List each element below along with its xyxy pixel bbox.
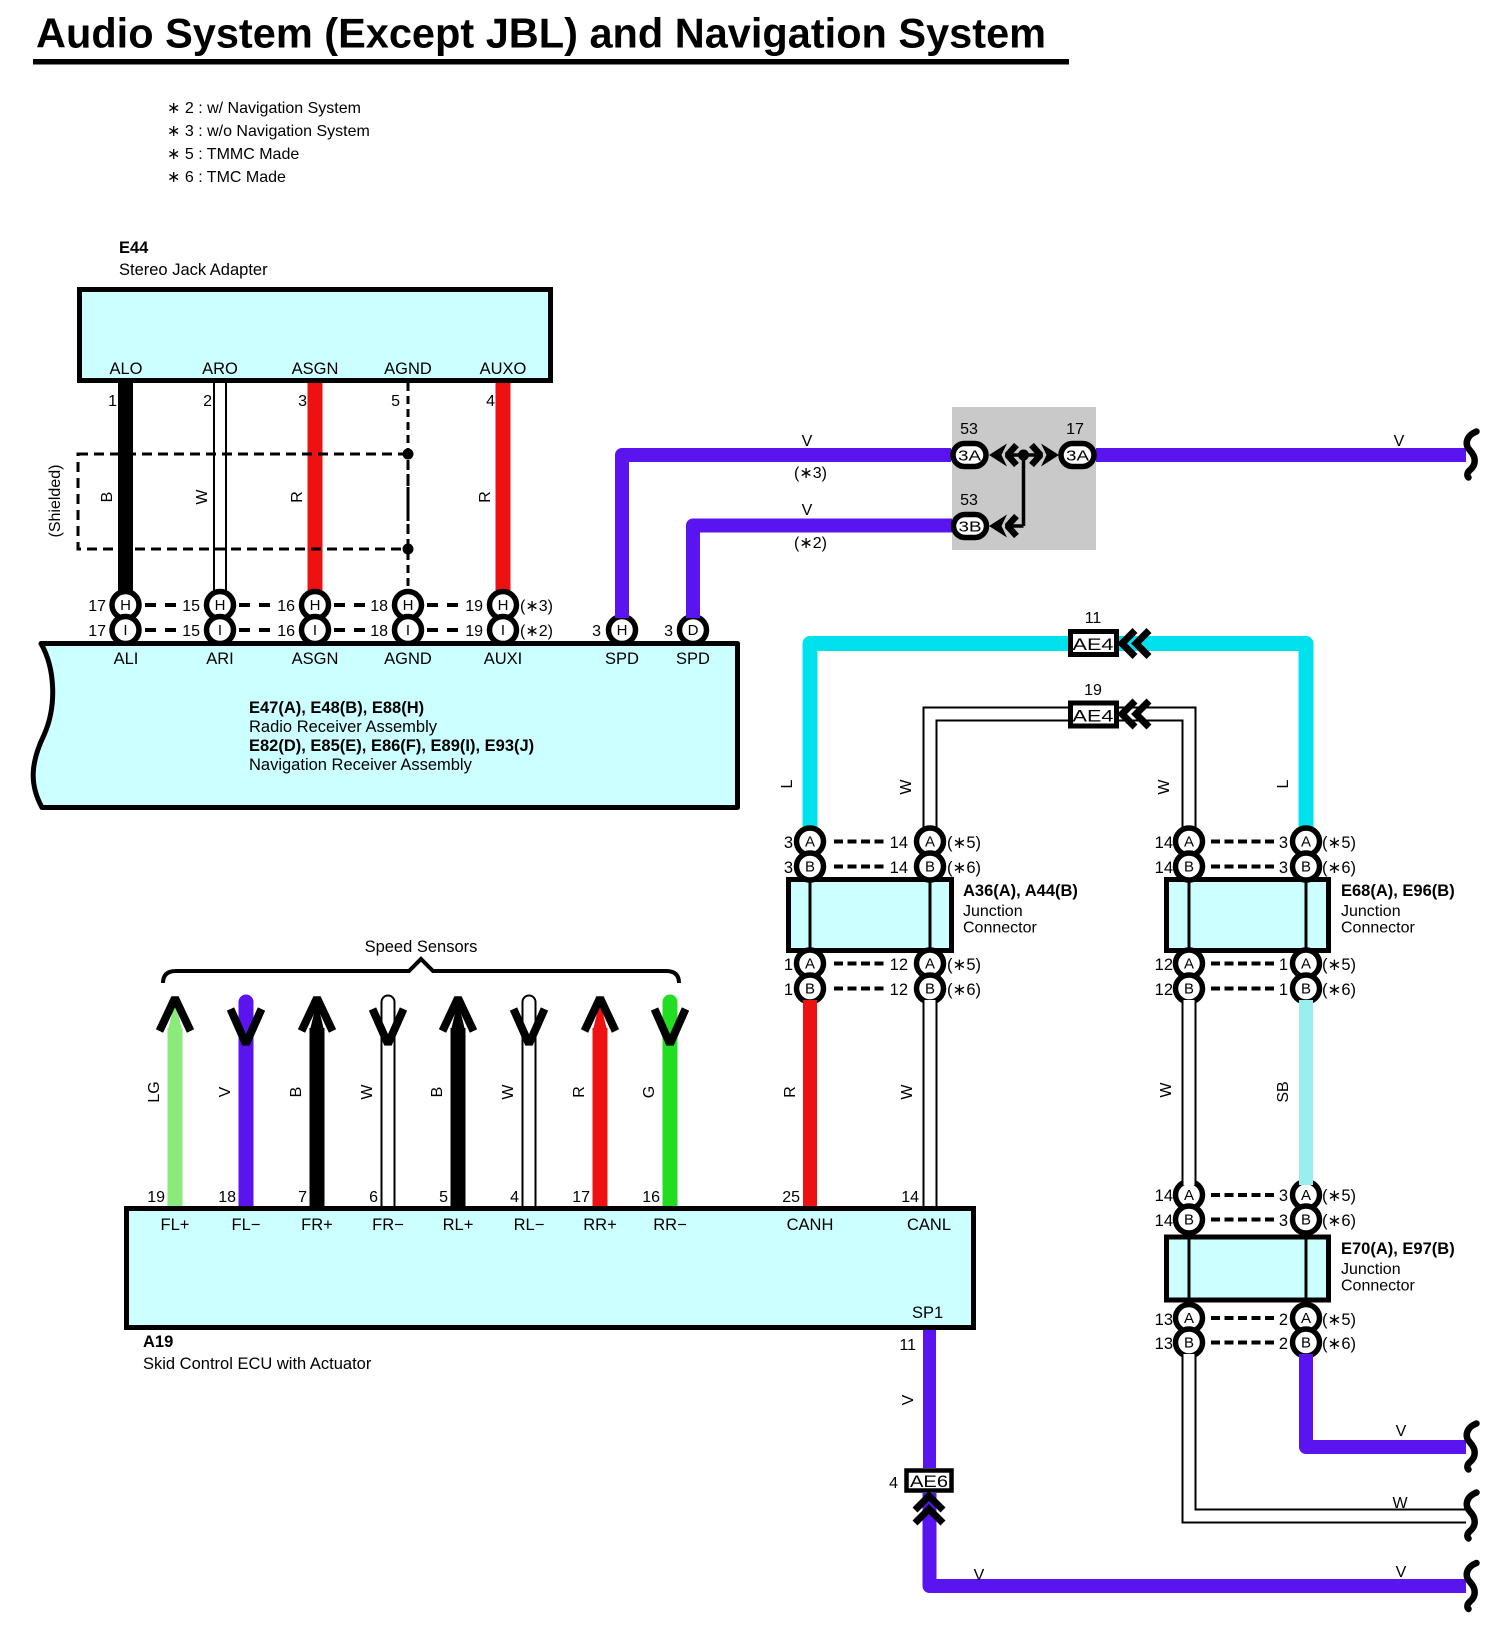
svg-text:A: A: [1184, 956, 1194, 973]
svg-text:17: 17: [572, 1189, 590, 1206]
svg-text:B: B: [925, 981, 935, 998]
svg-text:H: H: [310, 597, 321, 614]
svg-text:H: H: [617, 622, 628, 639]
svg-text:E70(A), E97(B): E70(A), E97(B): [1341, 1240, 1455, 1258]
svg-text:Radio Receiver Assembly: Radio Receiver Assembly: [249, 718, 438, 736]
svg-text:3: 3: [784, 859, 793, 877]
svg-text:B: B: [288, 1087, 305, 1098]
svg-text:18: 18: [370, 598, 388, 615]
svg-text:(∗2): (∗2): [520, 623, 553, 640]
svg-text:3: 3: [1279, 1187, 1288, 1205]
svg-text:ASGN: ASGN: [292, 360, 339, 378]
svg-text:B: B: [99, 492, 116, 503]
svg-text:4: 4: [889, 1475, 898, 1492]
svg-text:Speed Sensors: Speed Sensors: [365, 938, 478, 956]
svg-text:5: 5: [439, 1189, 448, 1206]
svg-text:25: 25: [782, 1189, 800, 1206]
svg-text:3: 3: [592, 623, 601, 640]
svg-text:13: 13: [1155, 1335, 1173, 1353]
svg-text:AGND: AGND: [384, 360, 432, 378]
svg-text:1: 1: [784, 981, 793, 999]
svg-text:12: 12: [1155, 956, 1173, 974]
svg-text:14: 14: [1155, 859, 1173, 877]
svg-text:1: 1: [1279, 956, 1288, 974]
svg-text:∗ 5 : TMMC Made: ∗ 5 : TMMC Made: [167, 146, 299, 163]
svg-text:Navigation Receiver Assembly: Navigation Receiver Assembly: [249, 756, 473, 774]
svg-text:14: 14: [1155, 1187, 1173, 1205]
svg-text:AE6: AE6: [910, 1473, 948, 1491]
svg-text:(∗6): (∗6): [947, 981, 981, 999]
svg-text:3: 3: [784, 834, 793, 852]
svg-text:D: D: [688, 622, 699, 639]
svg-text:2: 2: [1279, 1335, 1288, 1353]
svg-text:3B: 3B: [959, 519, 982, 536]
svg-text:19: 19: [1084, 682, 1102, 699]
svg-text:18: 18: [370, 623, 388, 640]
svg-text:H: H: [403, 597, 414, 614]
svg-text:AE4: AE4: [1073, 708, 1114, 726]
svg-text:13: 13: [1155, 1311, 1173, 1329]
svg-text:E68(A), E96(B): E68(A), E96(B): [1341, 882, 1455, 900]
svg-text:V: V: [1396, 1423, 1407, 1440]
svg-text:14: 14: [1155, 1212, 1173, 1230]
svg-text:W: W: [359, 1084, 376, 1100]
svg-text:B: B: [1184, 981, 1194, 998]
svg-text:12: 12: [890, 981, 908, 999]
svg-text:14: 14: [1155, 834, 1173, 852]
svg-text:7: 7: [298, 1189, 307, 1206]
svg-text:B: B: [1184, 1212, 1194, 1229]
svg-text:G: G: [641, 1086, 658, 1098]
svg-text:17: 17: [1066, 421, 1084, 438]
svg-text:Stereo Jack Adapter: Stereo Jack Adapter: [119, 261, 268, 279]
svg-text:Skid Control ECU with Actuator: Skid Control ECU with Actuator: [143, 1355, 372, 1373]
svg-text:R: R: [782, 1086, 799, 1098]
svg-text:SPD: SPD: [605, 650, 639, 668]
svg-text:12: 12: [890, 956, 908, 974]
svg-text:I: I: [313, 622, 317, 639]
svg-text:14: 14: [890, 834, 908, 852]
svg-text:B: B: [1301, 1335, 1311, 1352]
svg-text:14: 14: [901, 1189, 919, 1206]
svg-text:FL+: FL+: [161, 1216, 190, 1234]
svg-text:I: I: [406, 622, 410, 639]
svg-text:A: A: [1184, 834, 1194, 851]
svg-text:5: 5: [391, 393, 400, 410]
svg-text:W: W: [194, 489, 211, 505]
svg-text:19: 19: [147, 1189, 165, 1206]
svg-text:A: A: [1301, 1310, 1311, 1327]
svg-text:Junction: Junction: [1341, 903, 1401, 920]
svg-text:V: V: [1394, 433, 1405, 450]
svg-text:SPD: SPD: [676, 650, 710, 668]
svg-text:17: 17: [88, 598, 106, 615]
svg-text:FL−: FL−: [232, 1216, 261, 1234]
svg-text:RL−: RL−: [514, 1216, 545, 1234]
svg-text:(∗5): (∗5): [947, 834, 981, 852]
svg-text:3: 3: [298, 393, 307, 410]
svg-text:B: B: [805, 859, 815, 876]
svg-text:AE4: AE4: [1073, 636, 1114, 654]
svg-text:A: A: [925, 956, 935, 973]
svg-text:V: V: [974, 1567, 985, 1584]
svg-text:W: W: [1156, 779, 1173, 795]
svg-text:15: 15: [182, 598, 200, 615]
svg-text:19: 19: [465, 598, 483, 615]
svg-text:W: W: [898, 779, 915, 795]
svg-text:R: R: [289, 491, 306, 503]
svg-text:Junction: Junction: [963, 903, 1023, 920]
svg-text:16: 16: [277, 598, 295, 615]
svg-text:(∗6): (∗6): [1322, 859, 1356, 877]
svg-text:AUXI: AUXI: [484, 650, 523, 668]
svg-text:H: H: [498, 597, 509, 614]
svg-text:16: 16: [277, 623, 295, 640]
svg-text:ALO: ALO: [109, 360, 142, 378]
svg-text:3A: 3A: [1066, 448, 1089, 465]
svg-text:V: V: [802, 433, 813, 450]
svg-text:3A: 3A: [958, 448, 981, 465]
svg-text:B: B: [429, 1087, 446, 1098]
svg-text:2: 2: [203, 393, 212, 410]
svg-text:I: I: [501, 622, 505, 639]
svg-text:(∗6): (∗6): [1322, 1212, 1356, 1230]
svg-text:W: W: [1158, 1082, 1175, 1098]
svg-text:A: A: [805, 834, 815, 851]
svg-text:11: 11: [899, 1337, 916, 1354]
svg-text:A19: A19: [143, 1333, 173, 1351]
svg-text:V: V: [802, 502, 813, 519]
svg-text:FR−: FR−: [372, 1216, 404, 1234]
svg-text:19: 19: [465, 623, 483, 640]
svg-text:(∗5): (∗5): [1322, 1187, 1356, 1205]
svg-text:FR+: FR+: [301, 1216, 333, 1234]
svg-text:2: 2: [1279, 1311, 1288, 1329]
svg-text:3: 3: [1279, 834, 1288, 852]
svg-text:15: 15: [182, 623, 200, 640]
svg-text:Junction: Junction: [1341, 1261, 1401, 1278]
svg-text:RL+: RL+: [443, 1216, 474, 1234]
svg-text:ARO: ARO: [202, 360, 238, 378]
svg-text:∗ 6 : TMC Made: ∗ 6 : TMC Made: [167, 169, 286, 186]
svg-text:4: 4: [486, 393, 495, 410]
svg-text:11: 11: [1085, 610, 1102, 627]
svg-text:(∗6): (∗6): [947, 859, 981, 877]
svg-text:(Shielded): (Shielded): [47, 465, 64, 538]
svg-text:1: 1: [784, 956, 793, 974]
svg-text:ARI: ARI: [206, 650, 234, 668]
svg-text:(∗5): (∗5): [1322, 1311, 1356, 1329]
svg-text:3: 3: [1279, 1212, 1288, 1230]
svg-text:RR+: RR+: [583, 1216, 616, 1234]
svg-text:∗ 2 : w/ Navigation System: ∗ 2 : w/ Navigation System: [167, 100, 361, 117]
svg-text:V: V: [1396, 1564, 1407, 1581]
svg-text:B: B: [805, 981, 815, 998]
svg-text:(∗6): (∗6): [1322, 1335, 1356, 1353]
svg-text:Audio System (Except JBL) and: Audio System (Except JBL) and Navigation…: [36, 10, 1046, 57]
svg-text:CANH: CANH: [787, 1216, 834, 1234]
svg-text:RR−: RR−: [653, 1216, 686, 1234]
svg-text:A: A: [805, 956, 815, 973]
svg-text:1: 1: [108, 393, 117, 410]
svg-text:(∗5): (∗5): [1322, 956, 1356, 974]
svg-text:53: 53: [960, 492, 978, 509]
svg-text:B: B: [1301, 981, 1311, 998]
svg-text:E47(A), E48(B), E88(H): E47(A), E48(B), E88(H): [249, 699, 424, 717]
svg-text:53: 53: [960, 421, 978, 438]
svg-text:L: L: [779, 779, 796, 788]
svg-text:A: A: [1301, 956, 1311, 973]
svg-text:4: 4: [510, 1189, 519, 1206]
svg-text:B: B: [1184, 1335, 1194, 1352]
svg-text:AUXO: AUXO: [480, 360, 527, 378]
svg-text:R: R: [571, 1086, 588, 1098]
svg-text:B: B: [1301, 859, 1311, 876]
svg-text:(∗5): (∗5): [1322, 834, 1356, 852]
svg-text:W: W: [500, 1084, 517, 1100]
svg-text:H: H: [120, 597, 131, 614]
svg-text:(∗6): (∗6): [1322, 981, 1356, 999]
svg-text:ALI: ALI: [114, 650, 139, 668]
svg-text:(∗2): (∗2): [794, 535, 827, 552]
svg-text:E44: E44: [119, 239, 149, 257]
svg-text:B: B: [1301, 1212, 1311, 1229]
svg-text:CANL: CANL: [907, 1216, 951, 1234]
svg-text:E82(D), E85(E), E86(F), E89(I): E82(D), E85(E), E86(F), E89(I), E93(J): [249, 737, 534, 755]
svg-text:LG: LG: [146, 1081, 163, 1102]
svg-text:(∗3): (∗3): [520, 598, 553, 615]
svg-text:A: A: [1184, 1310, 1194, 1327]
svg-text:3: 3: [1279, 859, 1288, 877]
svg-text:A: A: [1184, 1187, 1194, 1204]
svg-text:R: R: [477, 491, 494, 503]
svg-text:I: I: [218, 622, 222, 639]
svg-text:SP1: SP1: [912, 1304, 943, 1322]
svg-text:A: A: [925, 834, 935, 851]
svg-text:14: 14: [890, 859, 908, 877]
svg-text:3: 3: [664, 623, 673, 640]
svg-text:SB: SB: [1275, 1081, 1292, 1102]
svg-text:A: A: [1301, 1187, 1311, 1204]
svg-text:18: 18: [218, 1189, 236, 1206]
svg-text:V: V: [217, 1086, 234, 1097]
svg-text:I: I: [123, 622, 127, 639]
svg-text:H: H: [215, 597, 226, 614]
svg-text:AGND: AGND: [384, 650, 432, 668]
svg-text:(∗3): (∗3): [794, 465, 827, 482]
svg-text:A: A: [1301, 834, 1311, 851]
svg-text:ASGN: ASGN: [292, 650, 339, 668]
svg-text:12: 12: [1155, 981, 1173, 999]
svg-text:∗ 3 : w/o Navigation System: ∗ 3 : w/o Navigation System: [167, 123, 370, 140]
svg-text:Connector: Connector: [1341, 920, 1415, 937]
svg-text:A36(A), A44(B): A36(A), A44(B): [963, 882, 1078, 900]
svg-text:Connector: Connector: [963, 920, 1037, 937]
svg-text:1: 1: [1279, 981, 1288, 999]
svg-text:V: V: [900, 1394, 917, 1405]
svg-text:W: W: [899, 1084, 916, 1100]
svg-text:(∗5): (∗5): [947, 956, 981, 974]
svg-text:Connector: Connector: [1341, 1278, 1415, 1295]
svg-text:L: L: [1275, 779, 1292, 788]
svg-text:W: W: [1392, 1495, 1408, 1512]
svg-text:6: 6: [369, 1189, 378, 1206]
svg-text:17: 17: [88, 623, 106, 640]
svg-text:16: 16: [642, 1189, 660, 1206]
svg-text:B: B: [1184, 859, 1194, 876]
svg-text:B: B: [925, 859, 935, 876]
